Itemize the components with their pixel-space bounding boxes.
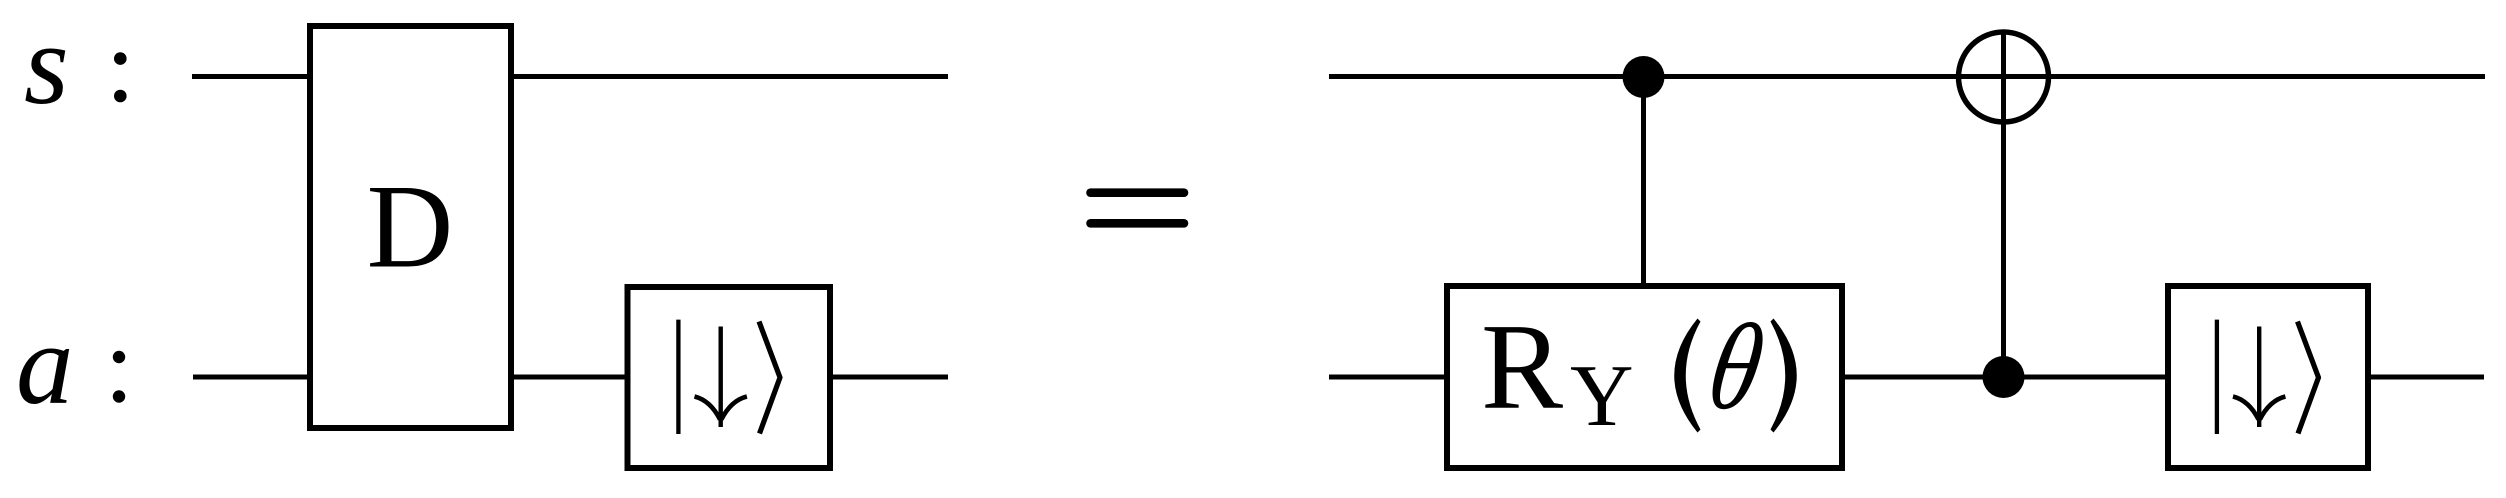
wire a right circuit [1329,375,2484,380]
state box |down> left [628,287,831,468]
wire a left circuit [193,375,948,380]
CNOT target circle [1959,32,2049,122]
colon after a [113,351,125,403]
ket bar right [2215,320,2219,434]
svg-text:s: s [24,1,69,128]
control wire of controlled-Ry [1641,77,1646,288]
svg-text:D: D [367,160,454,293]
ket bar left [676,320,680,434]
state box |down> right [2168,286,2368,468]
control dot on wire s [1623,56,1665,98]
CNOT vertical wire [2001,32,2006,377]
wire s left circuit [192,74,948,79]
gate Ry(theta) box [1447,286,1842,468]
angle bracket right [2298,322,2319,434]
svg-text:a: a [16,301,74,428]
gate Ry(theta) label [1481,298,1797,445]
gate D box [310,26,511,428]
down arrow right [2233,327,2285,428]
svg-text:R: R [1481,298,1563,435]
colon after s [114,52,127,102]
CNOT control dot on wire a [1983,356,2025,398]
svg-text:Y: Y [1570,348,1634,445]
equals sign [1091,193,1185,224]
wire s right circuit [1329,74,2485,79]
down arrow left [695,327,747,428]
angle bracket left [759,322,780,434]
